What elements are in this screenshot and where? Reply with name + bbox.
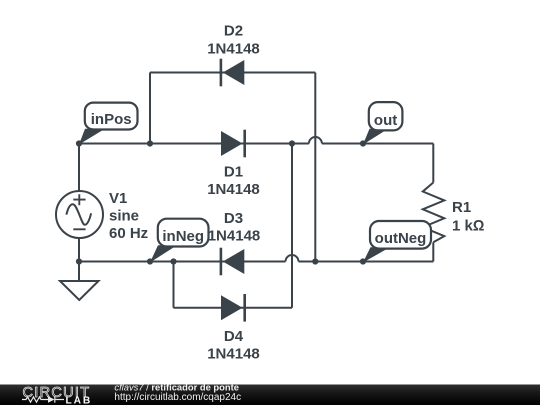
wire inNeg to D4 vertical [173,262,175,308]
svg-text:60 Hz: 60 Hz [109,225,148,242]
node inNeg junction dot [147,258,153,264]
wire R1 bottom lead [432,242,434,261]
svg-text:inPos: inPos [91,111,132,128]
diode D1 [221,130,245,158]
wire neg row left segment [79,261,286,263]
node inPos junction dot [76,140,82,146]
svg-text:1N4148: 1N4148 [207,181,260,198]
node D2-D3 junction dot [312,258,318,264]
diode D3 [221,248,244,276]
svg-text:1N4148: 1N4148 [207,346,260,363]
node label outNeg [363,221,431,263]
wire R1 top lead [432,144,434,183]
node out junction dot [360,140,366,146]
svg-text:V1: V1 [109,190,127,207]
diode D4 [221,294,245,322]
svg-text:1N4148: 1N4148 [208,228,261,245]
node D1 cathode junction dot [289,140,295,146]
svg-text:D1: D1 [224,164,243,181]
node outNeg junction dot [360,258,366,264]
wire V1 bottom lead [78,238,80,281]
svg-text:R1: R1 [452,199,471,216]
svg-text:out: out [374,112,397,129]
svg-text:http://circuitlab.com/cqap24c: http://circuitlab.com/cqap24c [114,392,241,403]
wire D2 row [150,72,315,74]
CircuitLab logo zigzag and diode [22,396,64,402]
node label inNeg [150,219,209,263]
wire neg row right segment [299,261,434,263]
svg-text:inNeg: inNeg [162,228,204,245]
wire D2 right vertical down to outNeg row [314,73,316,262]
ground [60,281,99,300]
wire D1 cathode vertical down to D4 row [291,144,293,308]
svg-text:D2: D2 [224,23,243,40]
wire inPos row right segment to out corner [322,143,433,145]
resistor R1 [423,183,445,243]
wire D2 branch left vertical [149,73,151,144]
node V1-ground junction dot [76,258,82,264]
svg-text:sine: sine [109,208,139,225]
diode D2 [221,59,244,87]
svg-text:1 kΩ: 1 kΩ [452,218,484,235]
svg-text:D4: D4 [224,328,244,345]
footer bar [0,385,540,405]
node label out [363,102,402,144]
wire hop over vertical at x=315 on inPos row [309,137,322,144]
wire hop over vertical at x=292 on neg row [286,255,299,262]
svg-text:outNeg: outNeg [375,230,427,247]
svg-text:D3: D3 [224,210,243,227]
svg-text:LAB: LAB [66,395,93,405]
svg-text:1N4148: 1N4148 [207,41,260,58]
node label inPos [79,103,138,145]
wire D4 row [174,307,293,309]
voltage source V1 [56,191,103,238]
wire V1 top lead [78,144,80,193]
wire inPos row left segment [79,143,309,145]
node D2-branch junction dot [147,140,153,146]
svg-text:cflavs7 / retificador de ponte: cflavs7 / retificador de ponte [114,381,239,392]
node D4-branch junction dot [170,258,176,264]
